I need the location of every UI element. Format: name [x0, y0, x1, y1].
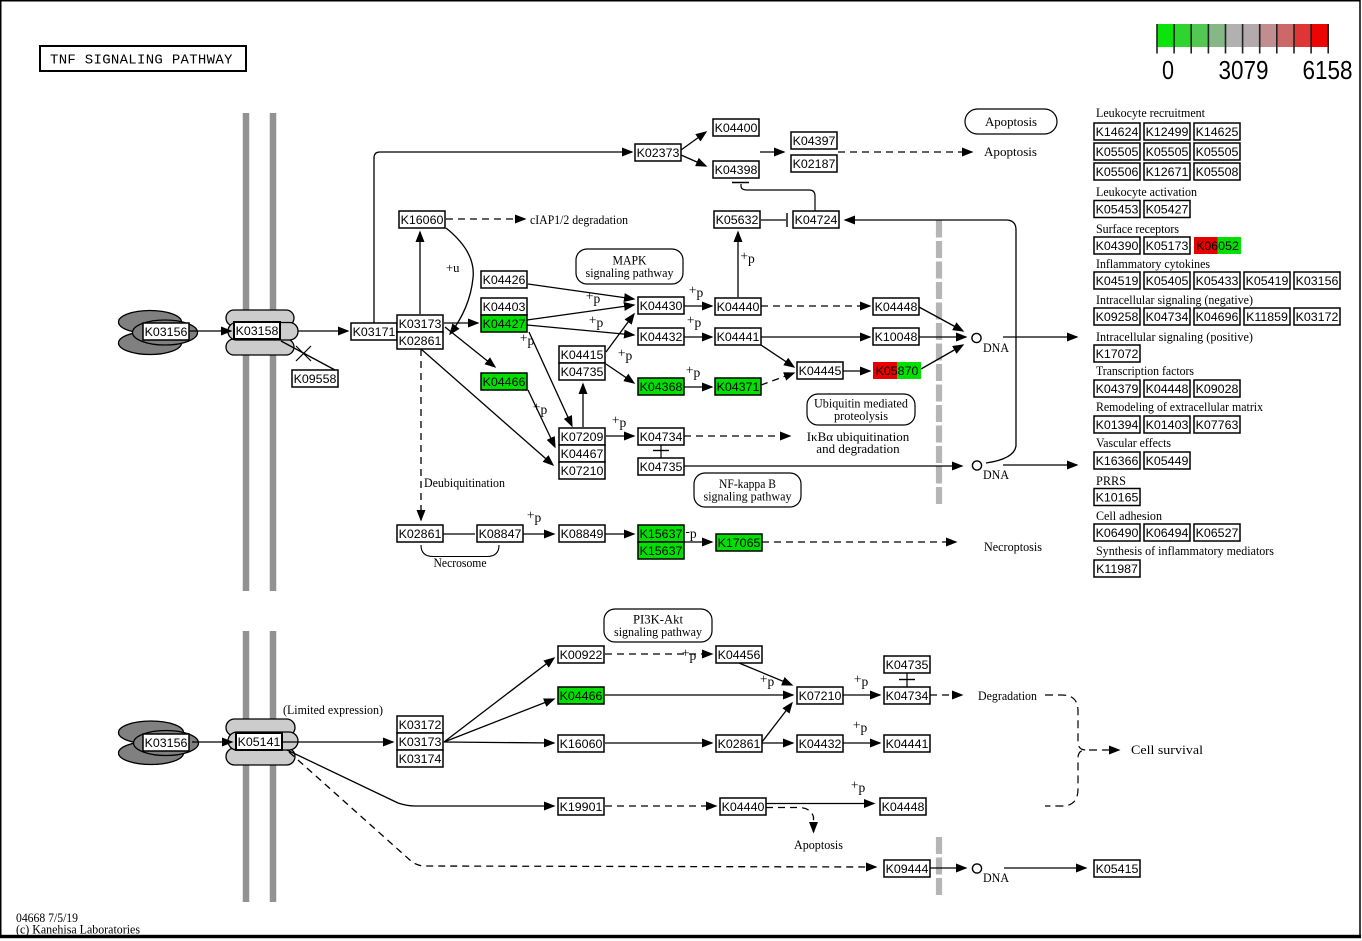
svg-text:K04456: K04456: [718, 648, 761, 662]
svg-text:K07210: K07210: [799, 689, 842, 703]
wire K07209 to K04734: [606, 435, 634, 437]
svg-text:K04398: K04398: [715, 163, 758, 177]
gene box K04734 IkBa: [638, 428, 684, 445]
svg-text:K12499: K12499: [1146, 125, 1189, 139]
wire K04466 to K07210 bottom: [605, 694, 793, 696]
svg-text:K07209: K07209: [561, 430, 604, 444]
svg-text:+p: +p: [687, 313, 702, 331]
gene box K04519 (Inflammatory cytokines): [1094, 272, 1140, 289]
svg-text:Necrosome: Necrosome: [434, 556, 487, 570]
gene box K05870 split red green: [873, 362, 921, 379]
gene box K04724 CFLAR: [793, 211, 839, 228]
svg-text:K05427: K05427: [1146, 203, 1189, 217]
svg-text:Surface receptors: Surface receptors: [1096, 222, 1179, 236]
gene box K05415: [1094, 860, 1140, 877]
double wire K04440 to K04448: [766, 804, 874, 833]
gene box K17065: [716, 534, 762, 551]
inhibition K04724 to K04398: [732, 183, 815, 212]
svg-text:+p: +p: [689, 283, 704, 301]
gene box K16060 bottom: [558, 735, 604, 752]
gene box K06494 (Cell adhesion): [1144, 524, 1190, 541]
gene box K07210 bottom: [797, 687, 843, 704]
svg-text:K05632: K05632: [716, 213, 759, 227]
svg-text:-p: -p: [685, 524, 697, 542]
gene box K04735 bottom: [884, 656, 930, 673]
wire K09444 to DNA 3: [930, 867, 966, 869]
svg-text:+p: +p: [760, 672, 775, 690]
gene box K04400: [713, 119, 759, 136]
svg-text:+p: +p: [853, 718, 868, 736]
wire K05141 to K19901: [287, 750, 554, 806]
svg-text:K04426: K04426: [483, 273, 526, 287]
gene box K04426: [481, 271, 527, 288]
svg-text:Remodeling of extracellular ma: Remodeling of extracellular matrix: [1096, 400, 1264, 414]
gene box K05419 (Inflammatory cytokines): [1244, 272, 1290, 289]
svg-text:K03174: K03174: [399, 752, 442, 766]
svg-text:DNA: DNA: [983, 468, 1009, 482]
wire K04427 to K04430: [527, 305, 634, 320]
gene box K09028 (Transcription factors): [1194, 380, 1240, 397]
gene box K03158 TNFR1: [234, 322, 280, 339]
svg-text:K04390: K04390: [1096, 239, 1139, 253]
wire K08847 to K08849: [523, 533, 554, 535]
wire K02373 to K04398: [681, 155, 706, 166]
expression color scale legend: [1157, 24, 1329, 54]
gene box K05405 (Inflammatory cytokines): [1144, 272, 1190, 289]
svg-text:+p: +p: [612, 413, 627, 431]
svg-text:K04432: K04432: [640, 330, 683, 344]
gene box K08847 RIPK3: [477, 525, 523, 542]
svg-text:K04400: K04400: [715, 121, 758, 135]
dashed bracket cell survival: [1045, 695, 1119, 806]
gene box K10165 (PRRS): [1094, 489, 1140, 506]
gene box K05505 (Leukocyte recruitment): [1194, 143, 1240, 160]
svg-text:Synthesis of inflammatory medi: Synthesis of inflammatory mediators: [1096, 544, 1274, 558]
svg-text:K03156: K03156: [145, 736, 188, 750]
wire complex to K16060 bottom: [444, 742, 554, 743]
gene box K04466: [481, 373, 527, 390]
svg-text:K05449: K05449: [1146, 454, 1189, 468]
svg-text:K04441: K04441: [717, 330, 760, 344]
linked pathway PI3K-Akt: [604, 609, 712, 642]
svg-text:K17072: K17072: [1096, 347, 1139, 361]
wire K15637 to K17065: [684, 541, 712, 543]
wire K04441 to K04445: [761, 345, 794, 367]
gene box K03156 TNF top: [143, 323, 189, 340]
gene box K17072 (Intracellular signaling (positive)): [1094, 345, 1140, 362]
svg-text:K06527: K06527: [1196, 526, 1239, 540]
gene box K04456 AKT: [716, 646, 762, 663]
svg-text:K10165: K10165: [1096, 491, 1139, 505]
gene stack K03172/K03173/K03174: [397, 716, 443, 767]
svg-text:K04696: K04696: [1196, 310, 1239, 324]
gene box K19901: [558, 798, 604, 815]
gene box K11859 (Intracellular signaling (negative)): [1244, 308, 1290, 325]
gene box K07763 (Remodeling of extracellular matrix): [1194, 416, 1240, 433]
svg-text:K15637: K15637: [640, 527, 683, 541]
DNA node 2: [972, 461, 981, 470]
wire caspase to K04397 pair: [760, 151, 784, 153]
svg-text:K04734: K04734: [886, 689, 929, 703]
gene box K05505 (Leukocyte recruitment): [1144, 143, 1190, 160]
nuclear membrane bottom dashed bar: [936, 837, 942, 897]
wire K04466 to K04467: [528, 390, 555, 447]
svg-text:proteolysis: proteolysis: [834, 409, 888, 423]
svg-text:K02187: K02187: [793, 157, 836, 171]
inhibition K04734 to K04735: [653, 445, 669, 459]
svg-text:(c) Kanehisa Laboratories: (c) Kanehisa Laboratories: [16, 923, 140, 937]
svg-text:K05173: K05173: [1146, 239, 1189, 253]
gene box K04441: [715, 328, 761, 345]
wire K05141 to K03173 complex: [283, 741, 393, 743]
gene box K04379 (Transcription factors): [1094, 380, 1140, 397]
wire K04426 to K04430: [528, 284, 634, 299]
dashed wire K04734 to Degradation: [930, 694, 962, 696]
gene box K04735: [638, 458, 684, 475]
wire K02861 to K07210 bottom: [762, 703, 792, 742]
gene box K03156 TNF bottom: [143, 734, 189, 751]
svg-text:K02861: K02861: [399, 527, 442, 541]
wire K04368 to K04371: [684, 386, 712, 388]
linked pathway MAPK: [576, 249, 683, 284]
gene stack K04415/K04735: [559, 346, 605, 380]
gene box K16060 cIAP: [399, 211, 445, 228]
svg-text:K04734: K04734: [640, 430, 683, 444]
gene box K16366 (Vascular effects): [1094, 452, 1140, 469]
dashed wire to Apoptosis: [838, 151, 972, 153]
dashed wire K04371 to K04445: [761, 373, 794, 385]
gene box K02861 bottom: [716, 735, 762, 752]
wire complex to K00922: [444, 658, 554, 742]
gene box K04448 bottom: [880, 798, 926, 815]
svg-text:Leukocyte activation: Leukocyte activation: [1096, 185, 1198, 199]
svg-text:K05505: K05505: [1096, 145, 1139, 159]
gene box K09258 (Intracellular signaling (negative)): [1094, 308, 1140, 325]
gene box K04445: [797, 362, 843, 379]
wire K03173 to K04427: [444, 322, 478, 324]
gene box K14624 (Leukocyte recruitment): [1094, 123, 1140, 140]
wire K04432 to K04441 bottom: [843, 742, 880, 744]
feedback loop DNA to K04724: [845, 220, 1016, 463]
gene box K04448 (Transcription factors): [1144, 380, 1190, 397]
gene box K03156 (Inflammatory cytokines): [1294, 272, 1340, 289]
svg-text:DNA: DNA: [983, 871, 1009, 885]
wire K03156 to K03158: [190, 330, 231, 332]
gene box K04734 bottom: [884, 687, 930, 704]
svg-text:K04440: K04440: [717, 300, 760, 314]
svg-text:Necroptosis: Necroptosis: [984, 540, 1042, 554]
svg-text:+p: +p: [527, 508, 542, 526]
wire K04735 to DNA 2: [684, 465, 962, 467]
gene box K14625 (Leukocyte recruitment): [1194, 123, 1240, 140]
svg-text:K03156: K03156: [145, 325, 188, 339]
wire K03158 to K09558: [281, 341, 335, 370]
svg-text:0: 0: [1162, 57, 1174, 85]
gene box K01403 (Remodeling of extracellular matrix): [1144, 416, 1190, 433]
svg-text:(Limited expression): (Limited expression): [283, 703, 383, 717]
svg-text:Degradation: Degradation: [978, 689, 1038, 703]
svg-text:K04403: K04403: [483, 300, 526, 314]
svg-text:K07763: K07763: [1196, 418, 1239, 432]
cell membrane bottom section: [246, 631, 273, 902]
svg-text:K12671: K12671: [1146, 165, 1189, 179]
wire K02861 to K04432 bottom: [762, 742, 793, 744]
svg-text:signaling pathway: signaling pathway: [704, 490, 793, 504]
svg-text:K05405: K05405: [1146, 274, 1189, 288]
gene box K02187: [791, 155, 837, 172]
svg-text:K19901: K19901: [560, 800, 603, 814]
gene box K04371: [715, 378, 761, 395]
pathway title box: [40, 46, 246, 71]
svg-text:Apoptosis: Apoptosis: [985, 115, 1037, 129]
svg-text:+p: +p: [686, 363, 701, 381]
dashed wire K04734 to IkBa degradation: [684, 435, 790, 437]
dashed wire K00922 to K04456: [605, 653, 712, 655]
svg-text:K09444: K09444: [886, 862, 929, 876]
gene box K09558: [292, 370, 338, 387]
svg-text:+u: +u: [446, 261, 460, 275]
wire DNA to cytokine targets: [1003, 336, 1077, 338]
wire K03173 up to K16060: [419, 232, 421, 314]
gene box K00922 PI3K: [558, 646, 604, 663]
wire K02861 to K07210: [421, 349, 553, 465]
ubiquitination arc K16060 to K02861: [446, 228, 473, 334]
svg-text:K10048: K10048: [875, 330, 918, 344]
svg-text:K04397: K04397: [793, 134, 836, 148]
svg-text:K05506: K05506: [1096, 165, 1139, 179]
gene stack K15637/K15637 MLKL: [638, 525, 684, 559]
wire K02373 to K04400: [681, 132, 706, 150]
svg-text:K04448: K04448: [1146, 382, 1189, 396]
dashed wire deubiquitination: [420, 349, 422, 520]
svg-text:K04415: K04415: [561, 348, 604, 362]
nuclear membrane top dashed bar: [936, 221, 942, 506]
gene box K12499 (Leukocyte recruitment): [1144, 123, 1190, 140]
svg-text:+p: +p: [533, 400, 548, 418]
gene box K04432 bottom: [797, 735, 843, 752]
cell membrane top section: [246, 113, 273, 591]
svg-text:K06490: K06490: [1096, 526, 1139, 540]
svg-text:K16060: K16060: [401, 213, 444, 227]
gene box K04441 bottom: [884, 735, 930, 752]
svg-text:K04368: K04368: [640, 380, 683, 394]
svg-text:DNA: DNA: [983, 341, 1009, 355]
DNA node 1: [972, 333, 981, 342]
wire K16060 to K02861 bottom: [605, 742, 712, 744]
wire K03158 to K03171: [298, 330, 348, 332]
gene stack K03173/K02861: [397, 315, 443, 349]
svg-text:K05415: K05415: [1096, 862, 1139, 876]
svg-text:K04519: K04519: [1096, 274, 1139, 288]
gene box K04398 CASP8: [713, 161, 759, 178]
svg-text:K04734: K04734: [1146, 310, 1189, 324]
svg-text:K09558: K09558: [294, 372, 337, 386]
gene box K04440: [715, 298, 761, 315]
svg-text:K11987: K11987: [1096, 562, 1138, 576]
svg-text:Cell survival: Cell survival: [1131, 743, 1204, 757]
svg-text:K04735: K04735: [886, 658, 929, 672]
svg-text:K03156: K03156: [1296, 274, 1339, 288]
svg-text:+p: +p: [740, 249, 755, 267]
svg-text:K14624: K14624: [1096, 125, 1139, 139]
svg-text:K04379: K04379: [1096, 382, 1139, 396]
TNFR1 receptor shape (top): [226, 310, 298, 355]
svg-text:K14625: K14625: [1196, 125, 1239, 139]
gene box K02373 FADD: [635, 144, 681, 161]
svg-text:K05141: K05141: [238, 735, 281, 749]
wire K04441 to K10048: [761, 336, 870, 338]
svg-text:K04440: K04440: [722, 800, 765, 814]
svg-text:K11859: K11859: [1246, 310, 1288, 324]
svg-text:K06052: K06052: [1196, 239, 1239, 253]
svg-text:K06494: K06494: [1146, 526, 1189, 540]
svg-text:+p: +p: [682, 646, 697, 664]
svg-text:TNF SIGNALING PATHWAY: TNF SIGNALING PATHWAY: [50, 53, 233, 69]
linked pathway Apoptosis: [965, 109, 1057, 134]
svg-text:K04432: K04432: [799, 737, 842, 751]
gene box K04397: [791, 132, 837, 149]
wire K04427 to K07209: [529, 332, 572, 426]
gene box K05508 (Leukocyte recruitment): [1194, 163, 1240, 180]
gene box K04734 (Intracellular signaling (negative)): [1144, 308, 1190, 325]
wire K07209 up to K04735: [582, 384, 584, 427]
svg-text:K15637: K15637: [640, 544, 683, 558]
svg-text:K16060: K16060: [560, 737, 603, 751]
gene box K04440 bottom: [720, 798, 766, 815]
wire complex to K04466 bottom: [444, 699, 554, 742]
wire K04440 up to K05632: [737, 232, 739, 297]
gene box K04448: [873, 298, 919, 315]
gene box K04430: [638, 297, 684, 314]
svg-text:K17065: K17065: [718, 536, 761, 550]
svg-text:PRRS: PRRS: [1096, 474, 1126, 488]
svg-text:K05508: K05508: [1196, 165, 1239, 179]
wire DNA 2 to vascular targets: [1003, 464, 1077, 466]
svg-text:Vascular effects: Vascular effects: [1096, 436, 1171, 450]
svg-text:K03171: K03171: [353, 325, 396, 339]
gene box K06052 split red green: [1194, 237, 1241, 254]
svg-text:signaling pathway: signaling pathway: [586, 266, 675, 280]
wire K04427 to K04432: [527, 325, 634, 335]
svg-text:K07210: K07210: [561, 464, 604, 478]
dashed wire to Necroptosis: [762, 541, 956, 543]
svg-text:3079: 3079: [1219, 57, 1269, 85]
svg-text:K04448: K04448: [875, 300, 918, 314]
gene box K09444: [884, 860, 930, 877]
gene box K05173 (Surface receptors): [1144, 237, 1190, 254]
svg-text:+p: +p: [851, 778, 866, 796]
wire K03156 to K05141: [192, 741, 232, 743]
svg-text:Cell adhesion: Cell adhesion: [1096, 509, 1163, 523]
svg-text:K01403: K01403: [1146, 418, 1189, 432]
wire K04430 to K04440: [684, 305, 712, 307]
gene box K04466 bottom: [558, 687, 604, 704]
svg-text:K05505: K05505: [1196, 145, 1239, 159]
svg-text:K04735: K04735: [561, 365, 604, 379]
svg-text:and degradation: and degradation: [816, 441, 900, 456]
svg-text:+p: +p: [618, 346, 633, 364]
svg-text:Deubiquitination: Deubiquitination: [424, 476, 506, 490]
svg-text:K02373: K02373: [637, 146, 680, 160]
gene stack K04403/K04427: [481, 298, 527, 332]
svg-text:6158: 6158: [1303, 57, 1353, 85]
dashed wire K05141 to K09444: [289, 752, 876, 867]
svg-text:K09028: K09028: [1196, 382, 1239, 396]
svg-text:K08847: K08847: [479, 527, 522, 541]
DNA node 3: [972, 864, 981, 873]
dashed wire K19901 to K04440: [605, 805, 716, 807]
gene box K04368: [638, 378, 684, 395]
svg-text:K04467: K04467: [561, 447, 604, 461]
gene box K03172 (Intracellular signaling (negative)): [1294, 308, 1340, 325]
dashed wire K16060 to cIAP degradation: [446, 218, 525, 220]
wire K07210 to K04734 bottom: [843, 694, 880, 696]
wire DNA 3 to K05415: [1004, 867, 1086, 869]
svg-text:+p: +p: [854, 672, 869, 690]
wire K04432 to K04441: [684, 336, 712, 338]
svg-text:K01394: K01394: [1096, 418, 1139, 432]
svg-text:+p: +p: [589, 313, 604, 331]
svg-text:K05433: K05433: [1196, 274, 1239, 288]
gene box K04432: [638, 328, 684, 345]
wire K04445 to K05870: [843, 370, 870, 372]
svg-text:K04441: K04441: [886, 737, 929, 751]
wire K08849 to K15637: [605, 533, 634, 535]
svg-text:Transcription factors: Transcription factors: [1096, 364, 1194, 378]
svg-text:K02861: K02861: [399, 334, 442, 348]
svg-text:K03172: K03172: [1296, 310, 1339, 324]
inhibition K05632 to K04724: [761, 213, 787, 227]
svg-text:K04430: K04430: [640, 299, 683, 313]
svg-text:K04427: K04427: [483, 317, 526, 331]
gene box K04696 (Intracellular signaling (negative)): [1194, 308, 1240, 325]
svg-text:K09258: K09258: [1096, 310, 1139, 324]
svg-text:K05870: K05870: [876, 364, 919, 378]
svg-text:signaling pathway: signaling pathway: [614, 625, 703, 639]
cross mark on K09558 association: [296, 346, 311, 361]
svg-text:Leukocyte recruitment: Leukocyte recruitment: [1096, 106, 1205, 120]
inhibition K04735 to K04734 bottom: [899, 673, 915, 687]
gene box K10048: [873, 328, 919, 345]
svg-text:K04466: K04466: [483, 375, 526, 389]
gene box K06490 (Cell adhesion): [1094, 524, 1140, 541]
svg-text:K03172: K03172: [399, 718, 442, 732]
wire K02861 to K08847: [443, 533, 475, 535]
svg-text:Intracellular signaling (negat: Intracellular signaling (negative): [1096, 293, 1253, 307]
svg-text:K04466: K04466: [560, 689, 603, 703]
svg-text:K05453: K05453: [1096, 203, 1139, 217]
svg-text:K03173: K03173: [399, 317, 442, 331]
svg-text:K02861: K02861: [718, 737, 761, 751]
svg-text:cIAP1/2 degradation: cIAP1/2 degradation: [530, 213, 629, 227]
wire K04448 to DNA: [919, 307, 963, 331]
gene stack K07209/K04467/K07210 IKK: [559, 428, 605, 479]
svg-text:K04445: K04445: [799, 364, 842, 378]
necrosome brace: [421, 545, 499, 557]
svg-text:K03158: K03158: [236, 324, 279, 338]
gene box K11987 (Synthesis of inflammatory mediators): [1094, 560, 1140, 577]
gene box K03171 TRADD: [351, 323, 397, 340]
gene box K12671 (Leukocyte recruitment): [1144, 163, 1190, 180]
linked pathway NF-kappa B: [694, 473, 801, 507]
gene box K05505 (Leukocyte recruitment): [1094, 143, 1140, 160]
wire K04415 to K04430: [606, 314, 634, 352]
svg-text:K05419: K05419: [1246, 274, 1289, 288]
wire K03171 up to K02373: [374, 152, 632, 323]
TNFR2 receptor shape (bottom): [226, 719, 298, 765]
svg-text:Apoptosis: Apoptosis: [794, 838, 843, 852]
gene box K05427 (Leukocyte activation): [1144, 201, 1190, 218]
